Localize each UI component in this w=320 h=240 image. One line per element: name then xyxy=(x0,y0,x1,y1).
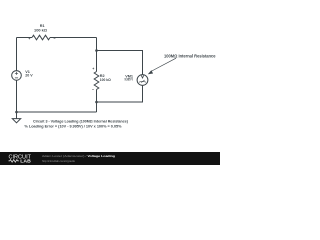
node junction C xyxy=(15,111,18,114)
wire top-right segment xyxy=(50,37,97,39)
resistor R2 xyxy=(94,72,99,90)
voltage source V1 xyxy=(12,71,22,81)
svg-text:20 V: 20 V xyxy=(25,74,33,78)
footer logo zigzag xyxy=(9,160,19,163)
resistor R1 xyxy=(32,35,50,40)
wire to voltmeter top xyxy=(97,51,143,76)
ground xyxy=(12,112,20,123)
svg-text:100 kΩ: 100 kΩ xyxy=(100,78,111,82)
wire top-left segment xyxy=(17,37,33,39)
polarity marks R2 xyxy=(92,68,94,90)
wire middle vertical lower xyxy=(96,90,98,113)
wire middle vertical upper xyxy=(96,38,98,72)
wire bottom-left xyxy=(17,111,97,113)
svg-text:% Loading Error = (10V - 9.995: % Loading Error = (10V - 9.995V) / 10V x… xyxy=(25,125,123,129)
annotation arrow to VM1 xyxy=(148,58,176,74)
svg-text:100MΩ Internal Resistance: 100MΩ Internal Resistance xyxy=(164,54,216,59)
svg-text:Circuit 3 - Voltage Loading (1: Circuit 3 - Voltage Loading (100MΩ Inter… xyxy=(33,119,129,123)
wire left vertical xyxy=(16,38,18,113)
node junction A xyxy=(95,49,98,52)
polarity marks R1 xyxy=(29,38,56,40)
svg-text:http://circuitlab.com/c/gravsk: http://circuitlab.com/c/gravsk xyxy=(42,159,75,163)
svg-text:100 kΩ: 100 kΩ xyxy=(34,28,47,32)
svg-text:Adam Losier (AdamLosier) / Vol: Adam Losier (AdamLosier) / Voltage Loadi… xyxy=(42,154,115,158)
wire from voltmeter bottom xyxy=(97,85,143,102)
footer bar xyxy=(0,152,220,165)
svg-text:9.995 V: 9.995 V xyxy=(125,78,134,82)
svg-text:LAB: LAB xyxy=(20,159,31,164)
node junction B xyxy=(95,101,98,104)
voltmeter VM1 xyxy=(137,75,148,86)
